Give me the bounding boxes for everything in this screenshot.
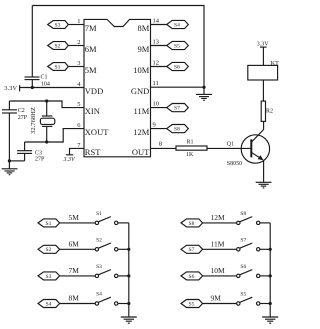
wire R2 to Q1 collector [263, 121, 265, 129]
ground (left bank) [121, 317, 137, 323]
svg-text:OUT: OUT [132, 147, 150, 157]
wire 9M [203, 303, 237, 305]
svg-text:6M: 6M [85, 44, 97, 54]
ground at pin 11 [196, 87, 212, 100]
switch S2 [95, 248, 98, 251]
svg-text:S7: S7 [189, 247, 195, 253]
svg-text:27P: 27P [18, 115, 28, 121]
svg-text:14: 14 [153, 18, 160, 25]
svg-text:S6: S6 [174, 64, 180, 70]
svg-text:9M: 9M [137, 44, 149, 54]
wire Q1 emitter [263, 161, 265, 183]
ground (crystal caps) [2, 161, 18, 175]
wire 11M [203, 248, 237, 250]
svg-text:10: 10 [153, 101, 160, 108]
wire R1 to Q1 base [207, 147, 251, 149]
svg-text:S7: S7 [174, 106, 180, 112]
svg-text:7M: 7M [85, 23, 97, 33]
node crystal bottom junction [45, 140, 48, 143]
tag S7 [167, 104, 189, 112]
svg-text:12: 12 [153, 60, 160, 67]
resistor R2 [261, 101, 265, 121]
tag S8 [167, 125, 189, 133]
node C1/VDD junction [31, 86, 34, 89]
svg-text:5M: 5M [69, 213, 80, 222]
tag S6 (bottom) [181, 272, 203, 280]
tag S7 (bottom) [181, 245, 203, 253]
wire 12M [203, 222, 237, 224]
svg-text:S2: S2 [55, 43, 61, 49]
capacitor C2 [8, 101, 10, 110]
node bus dots [269, 248, 272, 251]
svg-text:S8050: S8050 [227, 161, 242, 167]
svg-text:S7: S7 [240, 237, 246, 243]
pin 12 wire [151, 66, 167, 68]
svg-text:32.768HZ: 32.768HZ [30, 107, 37, 134]
power 3.3V RST [66, 154, 73, 156]
switch S1 [95, 221, 98, 224]
svg-text:3.3V: 3.3V [63, 157, 77, 163]
wire left bus [128, 223, 130, 317]
tag S3 [48, 21, 69, 29]
tag S5 [167, 41, 189, 49]
ground (right bank) [262, 317, 278, 323]
svg-text:3.3V: 3.3V [4, 85, 17, 92]
tag S5 (bottom) [181, 300, 203, 308]
svg-text:6M: 6M [69, 239, 80, 248]
svg-text:S4: S4 [174, 22, 180, 28]
svg-text:1: 1 [77, 18, 80, 25]
transistor Q1 [241, 135, 269, 163]
svg-text:S5: S5 [189, 301, 195, 307]
svg-text:S2: S2 [96, 237, 102, 243]
node bus dots [127, 248, 130, 251]
wire 5M [60, 222, 96, 224]
wire right bus [269, 223, 271, 317]
svg-text:11M: 11M [134, 106, 150, 116]
tag S8 (bottom) [181, 219, 203, 227]
pin 9 wire [151, 128, 167, 130]
svg-text:C1: C1 [41, 75, 48, 81]
svg-text:S5: S5 [240, 292, 246, 298]
svg-text:12M: 12M [133, 127, 150, 137]
svg-text:5M: 5M [85, 65, 97, 75]
svg-text:10M: 10M [133, 65, 150, 75]
wire KT to R2 [262, 80, 264, 101]
svg-text:7M: 7M [69, 266, 80, 275]
svg-text:C2: C2 [18, 108, 25, 114]
wire 3.3V to KT [262, 47, 264, 65]
svg-text:9M: 9M [211, 294, 222, 303]
tag S2 (bottom) [38, 245, 60, 253]
switch S8 [237, 221, 240, 224]
wire GND pin11 [151, 86, 205, 88]
node GND junction [202, 86, 205, 89]
svg-text:1K: 1K [186, 152, 194, 158]
node analog ground junction [8, 159, 11, 162]
svg-text:KT: KT [271, 61, 279, 67]
wire RST pin7 [70, 148, 85, 154]
svg-text:S4: S4 [96, 292, 102, 298]
tag S2 [48, 42, 69, 50]
svg-text:3: 3 [77, 60, 80, 67]
svg-text:S1: S1 [46, 221, 52, 227]
svg-text:S6: S6 [240, 264, 246, 270]
svg-text:9: 9 [153, 122, 156, 129]
pin 14 wire [151, 24, 167, 26]
svg-text:S3: S3 [96, 264, 102, 270]
switch S6 [237, 274, 240, 277]
switch S3 [95, 274, 98, 277]
pin 3 wire [68, 66, 84, 68]
crystal Y1 32.768HZ [46, 101, 48, 116]
wire 10M [203, 275, 237, 277]
svg-text:GND: GND [131, 86, 149, 96]
wire 6M [60, 248, 96, 250]
svg-text:8M: 8M [137, 23, 149, 33]
switch S4 [95, 302, 98, 305]
svg-text:S6: S6 [189, 274, 195, 280]
svg-text:S3: S3 [46, 274, 52, 280]
svg-text:S4: S4 [46, 301, 52, 307]
svg-text:10M: 10M [211, 266, 226, 275]
svg-text:S2: S2 [46, 247, 52, 253]
tag S4 (bottom) [38, 300, 60, 308]
node crystal top junction [45, 99, 48, 102]
switch S5 [237, 302, 240, 305]
wire 8M [60, 303, 96, 305]
svg-text:11: 11 [153, 80, 159, 87]
wire OUT pin8 [151, 147, 177, 149]
svg-text:VDD: VDD [85, 86, 103, 96]
buzzer KT [248, 65, 278, 80]
pin 2 wire [68, 45, 84, 47]
resistor R1 [176, 146, 207, 150]
svg-text:XOUT: XOUT [85, 127, 109, 137]
svg-text:12M: 12M [211, 213, 226, 222]
svg-text:R2: R2 [266, 109, 273, 115]
wire XIN pin5 [9, 101, 84, 108]
svg-text:XIN: XIN [85, 106, 100, 116]
tag S1 [48, 63, 69, 71]
switch S7 [237, 248, 240, 251]
svg-text:Q1: Q1 [227, 141, 234, 147]
svg-text:104: 104 [41, 81, 50, 87]
svg-text:RST: RST [85, 147, 101, 157]
tag S6 [167, 62, 189, 70]
svg-text:S5: S5 [174, 43, 180, 49]
svg-text:27P: 27P [35, 157, 45, 163]
svg-text:S8: S8 [189, 221, 195, 227]
wire 7M [60, 275, 96, 277]
wire XOUT pin6 [25, 129, 84, 142]
svg-text:11M: 11M [211, 239, 225, 248]
svg-text:8M: 8M [69, 294, 80, 303]
svg-text:S1: S1 [96, 211, 102, 217]
pin 10 wire [151, 107, 167, 109]
tag S3 (bottom) [38, 272, 60, 280]
svg-text:S8: S8 [240, 211, 246, 217]
svg-text:13: 13 [153, 39, 160, 46]
tag S4 [167, 20, 189, 28]
svg-text:S3: S3 [55, 22, 61, 28]
pin 13 wire [151, 45, 167, 47]
svg-text:R1: R1 [187, 139, 194, 145]
capacitor C1 [25, 76, 40, 78]
svg-text:8: 8 [159, 141, 162, 148]
svg-text:2: 2 [77, 39, 80, 46]
ground (emitter) [256, 182, 272, 188]
tag S1 (bottom) [38, 219, 60, 227]
IC U1 timer chip body [84, 19, 151, 156]
pin 1 wire [68, 24, 84, 26]
capacitor C3 [24, 142, 26, 151]
svg-text:S8: S8 [174, 127, 180, 133]
wire top rail [32, 6, 204, 88]
svg-text:S1: S1 [55, 64, 61, 70]
wire VDD pin4 [20, 87, 84, 89]
